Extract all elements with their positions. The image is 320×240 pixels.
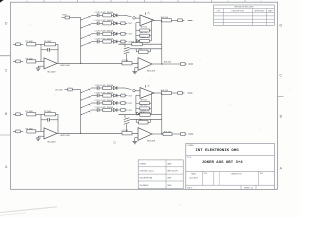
node circle A bbox=[125, 15, 132, 17]
wire feedback top B bbox=[119, 114, 162, 116]
wire chain5A tap bbox=[81, 24, 91, 28]
scan specks bbox=[29, 24, 290, 205]
wire chain7A tap bbox=[81, 42, 91, 46]
connector J4A output bbox=[178, 19, 183, 22]
svg-text:INT ELEKTRONIK OHG: INT ELEKTRONIK OHG bbox=[195, 149, 239, 153]
wire chain4A tap bbox=[81, 16, 91, 20]
resistor R12B output bbox=[163, 133, 172, 136]
connector chain7A bbox=[121, 40, 125, 43]
svg-text:MC1458: MC1458 bbox=[147, 71, 156, 73]
resistor R3A bbox=[27, 60, 36, 63]
svg-text:RELEASED: RELEASED bbox=[140, 184, 150, 187]
connector chain7B bbox=[121, 109, 125, 112]
wire feedback right B1 bbox=[57, 114, 59, 133]
wire U1B inverting input bbox=[136, 94, 140, 96]
drawing frame border bbox=[11, 2, 278, 189]
scan shadow bottom left bbox=[0, 207, 57, 213]
capacitor C5B bbox=[91, 95, 97, 97]
ground U2B bbox=[135, 137, 138, 139]
svg-text:AUS 100K: AUS 100K bbox=[61, 134, 71, 137]
wire chain6B tap bbox=[81, 104, 91, 108]
diode D7B bbox=[113, 108, 116, 111]
resistor R5B bbox=[103, 94, 112, 97]
node circle B bbox=[125, 88, 132, 90]
wire tap B2 bbox=[130, 118, 162, 120]
op-amp A1B bbox=[44, 128, 57, 139]
zone letters right bbox=[280, 24, 283, 171]
potentiometer P1B bbox=[124, 118, 130, 120]
svg-text:MC1458: MC1458 bbox=[147, 141, 156, 143]
svg-text:ANT 750: ANT 750 bbox=[140, 31, 147, 34]
wire tap A2 bbox=[130, 48, 162, 50]
capacitor C4A bbox=[91, 14, 97, 16]
svg-text:CHECKED gomez: CHECKED gomez bbox=[140, 170, 154, 172]
wire chain4B out bbox=[121, 87, 125, 89]
svg-text:AUS 100K: AUS 100K bbox=[61, 64, 71, 67]
wire node 1A bbox=[40, 44, 42, 61]
top margin scale bbox=[26, 0, 262, 3]
capacitor C6B bbox=[91, 102, 97, 104]
resistor R9A on main wire bbox=[122, 62, 132, 65]
circuit block B lower bbox=[13, 85, 193, 144]
wire pot left B bbox=[119, 114, 126, 116]
wire feedback right vert B bbox=[161, 115, 163, 134]
label J5B bbox=[188, 133, 193, 135]
svg-text:100 100K: 100 100K bbox=[55, 90, 63, 92]
svg-text:JOKER AUS OBT 3+4: JOKER AUS OBT 3+4 bbox=[202, 161, 243, 165]
svg-text:1N4148 470: 1N4148 470 bbox=[140, 37, 149, 39]
svg-text:APPROVED: APPROVED bbox=[255, 9, 266, 12]
scan mark bbox=[113, 141, 115, 143]
capacitor C5A bbox=[91, 22, 97, 24]
resistor R4A bbox=[103, 14, 112, 17]
wire feeder vertical B bbox=[80, 90, 82, 134]
capacitor C7B bbox=[91, 109, 97, 111]
connector J1A input 1 bbox=[13, 43, 16, 45]
fold mark right bbox=[278, 95, 284, 97]
label J5A bbox=[188, 63, 193, 65]
svg-text:MC1458: MC1458 bbox=[48, 142, 57, 144]
svg-text:DRAWING NO: DRAWING NO bbox=[231, 172, 243, 175]
wire feedback right vert A bbox=[161, 44, 163, 64]
resistor R4B bbox=[103, 86, 112, 89]
wire main A bbox=[57, 62, 138, 64]
svg-text:SIZE: SIZE bbox=[204, 173, 207, 175]
capacitor C7A bbox=[91, 41, 97, 43]
approval table bbox=[138, 160, 183, 189]
potentiometer P1A bbox=[124, 47, 130, 49]
capacitor C1A feedback bbox=[41, 49, 47, 51]
wire interstage vert B bbox=[161, 93, 163, 115]
svg-text:ANT 750: ANT 750 bbox=[140, 104, 147, 107]
resistor R7A bbox=[103, 40, 112, 43]
svg-text:ENG APPROVAL: ENG APPROVAL bbox=[140, 177, 153, 180]
svg-text:MC1458: MC1458 bbox=[48, 72, 57, 74]
svg-text:+15: +15 bbox=[147, 13, 150, 15]
wire chain4B tap bbox=[81, 89, 91, 93]
ground A1B bbox=[38, 135, 44, 137]
fold mark left lower bbox=[0, 134, 11, 136]
ground A1A bbox=[38, 65, 44, 67]
power stub U1B bbox=[144, 85, 146, 88]
label J4B bbox=[188, 92, 193, 94]
capacitor C1B feedback bbox=[41, 119, 47, 121]
wire main B bbox=[57, 132, 138, 134]
resistor R3B bbox=[27, 130, 36, 133]
resistor R1A bbox=[27, 43, 36, 46]
wire U1A inverting input bbox=[136, 22, 140, 24]
wire U1A output bbox=[154, 19, 161, 21]
connector chain5B bbox=[121, 94, 125, 97]
resistor R10A output bbox=[161, 19, 171, 22]
label J4A bbox=[188, 19, 193, 21]
wire U2B output bbox=[152, 133, 181, 135]
op-amp A1A bbox=[44, 58, 57, 69]
title block bbox=[186, 144, 275, 190]
wire chain4A out bbox=[121, 14, 125, 16]
svg-text:SHEET 1/1: SHEET 1/1 bbox=[244, 188, 253, 190]
diode D5B bbox=[113, 94, 116, 97]
wire chain7B tap bbox=[81, 111, 91, 115]
connector chain5A bbox=[121, 22, 125, 25]
op-amp U1A bbox=[140, 15, 154, 26]
resistor R7B bbox=[103, 108, 112, 111]
scan corner mark bbox=[0, 0, 4, 3]
wire feedback right A1 bbox=[57, 44, 59, 63]
connector chain6A bbox=[121, 32, 125, 35]
resistor R9B on main wire bbox=[122, 132, 132, 135]
connector J2A input 2 bbox=[13, 60, 16, 62]
svg-text:DRAWN: DRAWN bbox=[140, 162, 147, 165]
circuit block A upper bbox=[13, 12, 193, 74]
wire feedback right B2 bbox=[150, 93, 152, 114]
connector chain6B bbox=[121, 102, 125, 105]
wire U2A output bbox=[152, 63, 181, 65]
diode D4A bbox=[113, 14, 116, 17]
connector J1B input 1 bbox=[13, 113, 16, 115]
diode D6B bbox=[113, 101, 116, 104]
capacitor C6A bbox=[91, 33, 97, 35]
op-amp U2A bbox=[138, 58, 152, 71]
connector J4B output bbox=[178, 92, 183, 95]
capacitor C4B bbox=[91, 87, 97, 89]
wire interstage vert A bbox=[161, 20, 163, 44]
connector J5A output bbox=[181, 63, 186, 66]
wire feedback top A bbox=[119, 43, 162, 45]
resistor R6A bbox=[103, 32, 112, 35]
svg-text:+15: +15 bbox=[147, 85, 150, 87]
svg-text:REVISION RECORD: REVISION RECORD bbox=[235, 7, 254, 9]
diode D7A bbox=[113, 40, 116, 43]
svg-text:DESCRIPTION: DESCRIPTION bbox=[232, 10, 245, 12]
svg-text:ywr5 30.8: ywr5 30.8 bbox=[189, 176, 197, 179]
wire pot left A bbox=[119, 43, 126, 45]
diode D5A bbox=[113, 22, 116, 25]
connector J2B input 2 bbox=[13, 130, 16, 132]
wire node 1B bbox=[40, 114, 42, 131]
resistor R10B output bbox=[161, 91, 171, 94]
wire chain5B tap bbox=[81, 96, 91, 100]
power stub U1A bbox=[144, 12, 146, 15]
connector J5B output bbox=[181, 133, 186, 136]
svg-text:REV: REV bbox=[260, 173, 263, 175]
ground U2A bbox=[135, 67, 138, 69]
wire feedback right A2 bbox=[150, 20, 152, 41]
op-amp U2B bbox=[138, 128, 152, 141]
wire feeder vertical A bbox=[80, 18, 82, 64]
revision table bbox=[214, 5, 275, 25]
svg-text:GRT 150: GRT 150 bbox=[140, 27, 147, 29]
svg-text:DATE 30.8.89: DATE 30.8.89 bbox=[167, 169, 178, 172]
zone letters left bbox=[5, 21, 8, 169]
wire chain6A tap bbox=[81, 34, 91, 38]
diode D4B bbox=[113, 86, 116, 89]
resistor R1B bbox=[27, 113, 36, 116]
resistor R5A bbox=[103, 22, 112, 25]
svg-text:AUS 330: AUS 330 bbox=[164, 60, 171, 63]
wire U1B output bbox=[154, 92, 161, 94]
fold mark left upper bbox=[0, 55, 11, 57]
svg-text:GRT 150: GRT 150 bbox=[140, 99, 147, 101]
svg-text:TITLE: TITLE bbox=[187, 157, 191, 159]
diode D6A bbox=[113, 32, 116, 35]
resistor R6B bbox=[103, 101, 112, 104]
op-amp U1B bbox=[140, 88, 154, 99]
svg-text:DATE: DATE bbox=[268, 9, 273, 12]
svg-text:SCALE: SCALE bbox=[187, 186, 193, 189]
